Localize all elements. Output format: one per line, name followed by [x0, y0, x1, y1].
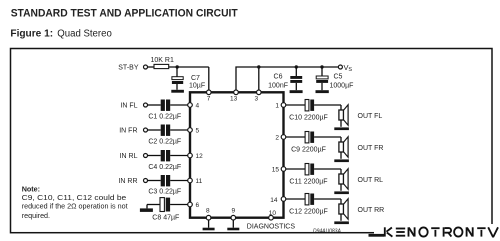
svg-text:5: 5 — [196, 128, 200, 135]
svg-text:C9, C10, C11, C12 could be: C9, C10, C11, C12 could be — [22, 193, 127, 202]
svg-text:required.: required. — [22, 211, 50, 220]
svg-text:C10 2200µF: C10 2200µF — [289, 115, 328, 122]
svg-text:D94AU083A: D94AU083A — [313, 228, 341, 234]
svg-text:OUT RL: OUT RL — [358, 177, 384, 184]
svg-text:IN FR: IN FR — [119, 127, 137, 134]
svg-text:11: 11 — [196, 178, 203, 185]
svg-text:C1 0.22µF: C1 0.22µF — [148, 113, 181, 120]
svg-text:10: 10 — [269, 210, 277, 217]
svg-text:13: 13 — [230, 96, 238, 103]
svg-text:C12 2200µF: C12 2200µF — [289, 209, 328, 216]
svg-text:DIAGNOSTICS: DIAGNOSTICS — [247, 223, 296, 230]
svg-text:OUT RR: OUT RR — [358, 207, 385, 214]
svg-text:C7: C7 — [191, 75, 200, 82]
svg-text:IN FL: IN FL — [120, 102, 137, 109]
svg-text:15: 15 — [272, 167, 280, 174]
svg-text:C6: C6 — [274, 74, 283, 81]
svg-text:10µF: 10µF — [189, 83, 205, 90]
svg-text:C9 2200µF: C9 2200µF — [291, 147, 326, 154]
svg-text:Quad Stereo: Quad Stereo — [57, 28, 112, 39]
svg-text:100nF: 100nF — [268, 82, 288, 89]
svg-text:OUT FR: OUT FR — [358, 145, 384, 152]
svg-text:10K R1: 10K R1 — [151, 57, 174, 64]
svg-text:Figure 1:: Figure 1: — [10, 28, 53, 39]
svg-text:12: 12 — [196, 153, 204, 160]
svg-text:C11 2200µF: C11 2200µF — [289, 179, 327, 186]
svg-text:9: 9 — [232, 208, 236, 215]
svg-text:IN RL: IN RL — [120, 153, 138, 160]
svg-text:C8 47µF: C8 47µF — [152, 214, 179, 221]
svg-text:4: 4 — [196, 103, 200, 110]
svg-text:2: 2 — [275, 135, 279, 142]
svg-text:reduced if the 2Ω operation is: reduced if the 2Ω operation is not — [22, 202, 128, 211]
svg-text:S: S — [348, 67, 352, 73]
svg-text:IN RR: IN RR — [118, 178, 137, 185]
svg-text:C3 0.22µF: C3 0.22µF — [148, 188, 181, 195]
svg-text:3: 3 — [255, 96, 259, 103]
svg-text:ST-BY: ST-BY — [118, 65, 139, 72]
svg-text:6: 6 — [196, 202, 200, 209]
svg-text:STANDARD TEST AND APPLICATION: STANDARD TEST AND APPLICATION CIRCUIT — [11, 7, 238, 19]
svg-text:7: 7 — [207, 95, 211, 102]
svg-text:C4 0.22µF: C4 0.22µF — [148, 164, 181, 171]
svg-text:C2 0.22µF: C2 0.22µF — [148, 138, 181, 145]
svg-text:8: 8 — [206, 208, 210, 215]
svg-text:OUT FL: OUT FL — [358, 113, 383, 120]
svg-text:C5: C5 — [334, 74, 343, 81]
svg-text:14: 14 — [270, 197, 278, 204]
svg-text:1: 1 — [275, 103, 279, 110]
svg-text:1000µF: 1000µF — [330, 82, 354, 89]
